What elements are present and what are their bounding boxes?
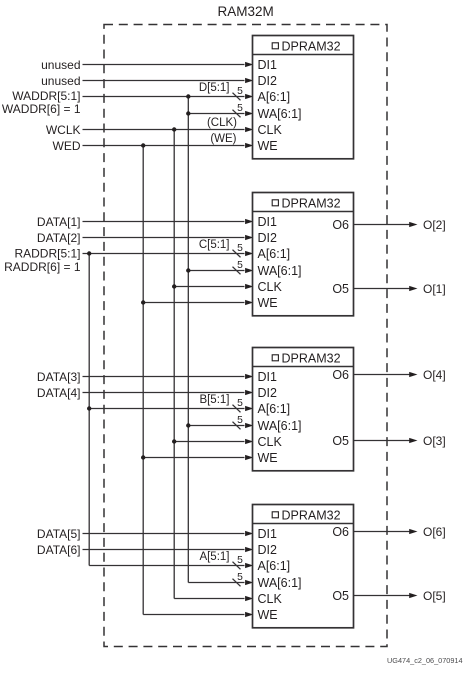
svg-text:B[5:1]: B[5:1]: [199, 394, 229, 406]
svg-text:A[5:1]: A[5:1]: [199, 551, 229, 563]
svg-text:O5: O5: [332, 282, 349, 296]
svg-text:CLK: CLK: [258, 123, 283, 137]
svg-text:O6: O6: [332, 218, 349, 232]
svg-text:5: 5: [237, 243, 243, 254]
svg-text:WE: WE: [258, 451, 278, 465]
svg-text:DATA[6]: DATA[6]: [37, 543, 81, 557]
svg-text:WE: WE: [258, 296, 278, 310]
svg-text:WA[6:1]: WA[6:1]: [258, 576, 302, 590]
svg-text:DATA[3]: DATA[3]: [37, 370, 81, 384]
svg-text:WA[6:1]: WA[6:1]: [258, 419, 302, 433]
svg-text:DI1: DI1: [258, 527, 278, 541]
svg-text:WADDR[5:1]: WADDR[5:1]: [12, 89, 80, 103]
svg-text:O[1]: O[1]: [423, 282, 446, 296]
svg-text:WA[6:1]: WA[6:1]: [258, 264, 302, 278]
svg-text:unused: unused: [41, 74, 80, 88]
svg-text:WED: WED: [53, 139, 81, 153]
svg-text:5: 5: [237, 260, 243, 271]
svg-text:DI1: DI1: [258, 370, 278, 384]
svg-text:A[6:1]: A[6:1]: [258, 90, 291, 104]
svg-text:(WE): (WE): [210, 133, 236, 145]
svg-text:WCLK: WCLK: [46, 123, 81, 137]
svg-text:RAM32M: RAM32M: [217, 4, 273, 19]
svg-text:DATA[1]: DATA[1]: [37, 215, 81, 229]
svg-text:unused: unused: [41, 58, 80, 72]
svg-text:DI2: DI2: [258, 74, 278, 88]
svg-text:DI2: DI2: [258, 231, 278, 245]
svg-text:DI1: DI1: [258, 215, 278, 229]
svg-text:DPRAM32: DPRAM32: [282, 509, 341, 523]
svg-text:WE: WE: [258, 608, 278, 622]
svg-text:DI2: DI2: [258, 386, 278, 400]
svg-text:DPRAM32: DPRAM32: [282, 40, 341, 54]
svg-text:A[6:1]: A[6:1]: [258, 247, 291, 261]
svg-text:5: 5: [237, 103, 243, 114]
svg-text:O6: O6: [332, 368, 349, 382]
svg-text:(CLK): (CLK): [207, 117, 237, 129]
svg-text:WADDR[6] = 1: WADDR[6] = 1: [2, 102, 81, 116]
svg-text:DPRAM32: DPRAM32: [282, 197, 341, 211]
svg-text:5: 5: [237, 415, 243, 426]
svg-text:DATA[2]: DATA[2]: [37, 231, 81, 245]
svg-text:C[5:1]: C[5:1]: [199, 239, 230, 251]
svg-text:CLK: CLK: [258, 280, 283, 294]
svg-text:WE: WE: [258, 139, 278, 153]
svg-text:DI2: DI2: [258, 543, 278, 557]
svg-text:O5: O5: [332, 589, 349, 603]
svg-text:A[6:1]: A[6:1]: [258, 402, 291, 416]
svg-text:5: 5: [237, 555, 243, 566]
svg-text:CLK: CLK: [258, 435, 283, 449]
svg-text:A[6:1]: A[6:1]: [258, 559, 291, 573]
svg-text:DATA[4]: DATA[4]: [37, 386, 81, 400]
svg-text:O[2]: O[2]: [423, 218, 446, 232]
svg-text:DPRAM32: DPRAM32: [282, 352, 341, 366]
svg-text:O[3]: O[3]: [423, 434, 446, 448]
svg-text:D[5:1]: D[5:1]: [199, 82, 230, 94]
svg-text:RADDR[6] = 1: RADDR[6] = 1: [4, 260, 81, 274]
svg-text:O[6]: O[6]: [423, 525, 446, 539]
svg-text:O6: O6: [332, 525, 349, 539]
svg-text:DI1: DI1: [258, 58, 278, 72]
svg-text:O[5]: O[5]: [423, 589, 446, 603]
svg-text:DATA[5]: DATA[5]: [37, 527, 81, 541]
svg-text:O5: O5: [332, 434, 349, 448]
svg-text:5: 5: [237, 398, 243, 409]
svg-text:CLK: CLK: [258, 592, 283, 606]
svg-text:RADDR[5:1]: RADDR[5:1]: [14, 246, 80, 260]
svg-text:5: 5: [237, 86, 243, 97]
svg-text:UG474_c2_06_070914: UG474_c2_06_070914: [387, 656, 462, 665]
svg-text:WA[6:1]: WA[6:1]: [258, 107, 302, 121]
svg-text:5: 5: [237, 572, 243, 583]
svg-text:O[4]: O[4]: [423, 368, 446, 382]
